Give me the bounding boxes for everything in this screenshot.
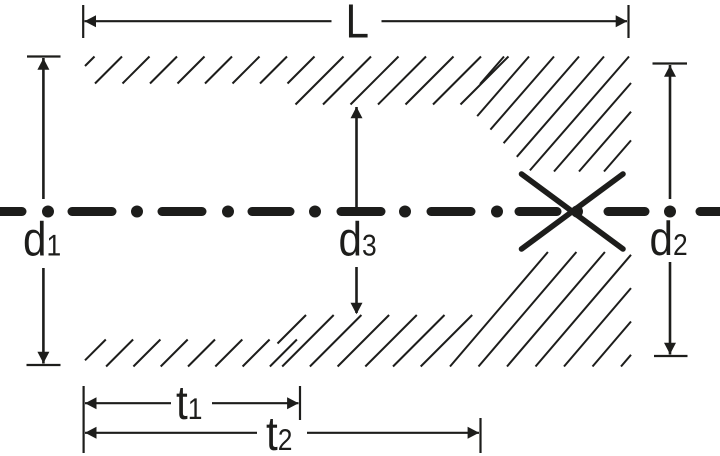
- dimension L extension tick right: [627, 5, 629, 38]
- dimension d1 line and arrows: [37, 58, 49, 364]
- centerline dash-dot axis: [0, 206, 720, 218]
- label d2: [650, 213, 688, 266]
- hatch upper-left wall band: [85, 57, 315, 84]
- dimension t2 right tick: [479, 418, 481, 453]
- dimension L extension tick left: [82, 5, 84, 38]
- label t2: [266, 408, 292, 456]
- dimension d2 tick top: [653, 62, 688, 64]
- dimension t1 line and arrows: [85, 397, 299, 409]
- t dimensions left tick: [82, 386, 84, 453]
- dimension L line and arrows: [85, 15, 628, 27]
- dimension d1 tick top: [27, 55, 61, 57]
- dimension t2 line and arrows: [85, 427, 479, 439]
- svg-text:d1: d1: [23, 214, 61, 267]
- hatch lower solid head: [450, 252, 631, 367]
- dimension t1 right tick: [299, 386, 301, 420]
- square-drive cross X: [522, 174, 624, 249]
- hatch lower-left wall band: [85, 340, 297, 367]
- hatch upper solid head: [477, 57, 631, 172]
- dimension d1 tick bottom: [27, 364, 61, 366]
- label d1: [23, 214, 61, 267]
- label L: [346, 0, 369, 49]
- svg-text:d2: d2: [650, 213, 688, 266]
- svg-text:t2: t2: [266, 408, 292, 456]
- svg-text:d3: d3: [339, 214, 377, 267]
- label d3: [339, 214, 377, 267]
- hatch lower-middle wall band: [278, 315, 473, 367]
- dimension d2 tick bottom: [654, 355, 688, 357]
- dimension d3 arrows: [351, 107, 363, 315]
- hatch upper-middle wall band: [296, 57, 509, 105]
- label t1: [176, 377, 202, 430]
- dimension d2 line and arrows: [664, 65, 676, 355]
- svg-text:L: L: [346, 0, 369, 49]
- svg-text:t1: t1: [176, 377, 202, 430]
